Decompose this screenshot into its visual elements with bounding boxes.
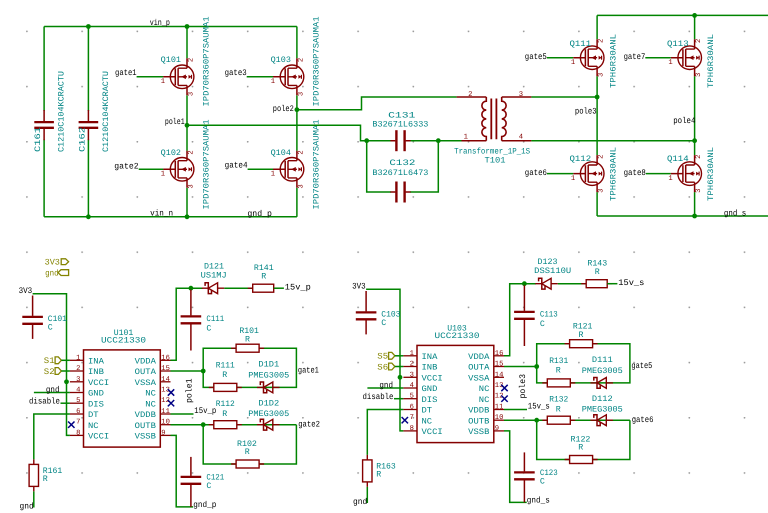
svg-text:3: 3 bbox=[598, 189, 606, 193]
svg-text:Q103: Q103 bbox=[271, 56, 291, 65]
wire D123 to R143 bbox=[558, 283, 586, 285]
svg-text:DT: DT bbox=[422, 407, 433, 416]
svg-text:OUTB: OUTB bbox=[468, 417, 489, 426]
svg-text:3: 3 bbox=[76, 376, 80, 384]
svg-text:7: 7 bbox=[410, 414, 414, 422]
svg-text:15: 15 bbox=[495, 361, 504, 369]
svg-text:pole1: pole1 bbox=[185, 379, 195, 404]
svg-text:C: C bbox=[206, 324, 211, 333]
svg-text:11: 11 bbox=[161, 408, 170, 416]
svg-text:3: 3 bbox=[297, 184, 305, 188]
svg-text:NC: NC bbox=[145, 400, 156, 409]
transistor Q103 bbox=[280, 65, 304, 89]
wire left vertical (C161 branch) bbox=[43, 27, 45, 217]
svg-text:pole3: pole3 bbox=[518, 374, 528, 399]
wire Q111 source to pole3 to Q112 drain bbox=[596, 76, 598, 155]
wire vin_p top rail bbox=[44, 26, 297, 28]
svg-text:GND: GND bbox=[422, 385, 438, 394]
svg-text:OUTA: OUTA bbox=[468, 364, 489, 373]
svg-text:IPD70R360P7SAUMA1: IPD70R360P7SAUMA1 bbox=[203, 119, 212, 209]
resistor R143 bbox=[586, 280, 607, 288]
svg-text:2: 2 bbox=[76, 365, 80, 373]
junction OUTB U103 bbox=[534, 418, 539, 423]
no-connect pin7 U103 bbox=[402, 417, 408, 423]
wire Q101 source to pole1 to Q102 drain bbox=[186, 95, 188, 151]
wire Q102 source to vin_n bbox=[186, 188, 188, 217]
wire R161 to gnd bbox=[33, 491, 35, 507]
svg-text:C: C bbox=[540, 478, 545, 487]
svg-text:D121: D121 bbox=[204, 262, 224, 271]
svg-text:1: 1 bbox=[271, 78, 275, 86]
svg-text:DSS110U: DSS110U bbox=[534, 267, 571, 276]
svg-text:DT: DT bbox=[88, 411, 99, 420]
svg-text:8: 8 bbox=[76, 429, 80, 437]
junction OUTA U103 bbox=[534, 364, 539, 369]
junction pole2 bbox=[295, 107, 300, 112]
wire R141 to 15v_p bbox=[274, 287, 284, 289]
svg-text:TPH6R30ANL: TPH6R30ANL bbox=[610, 34, 619, 88]
wire secondary top rail bbox=[597, 14, 768, 16]
svg-text:2: 2 bbox=[187, 58, 195, 62]
svg-text:D112: D112 bbox=[592, 395, 613, 404]
svg-text:Transformer_1P_1S: Transformer_1P_1S bbox=[454, 146, 530, 156]
svg-text:VCCI: VCCI bbox=[88, 433, 109, 442]
svg-text:R: R bbox=[556, 406, 561, 415]
wire gnd to GND pin (U101) bbox=[34, 392, 70, 394]
wire Q113 drain bbox=[694, 15, 696, 39]
svg-text:B32671L6473: B32671L6473 bbox=[372, 169, 428, 178]
wire gate5 to Q111 bbox=[547, 57, 573, 59]
svg-text:R: R bbox=[578, 444, 583, 453]
svg-text:Q102: Q102 bbox=[161, 149, 181, 158]
svg-text:C: C bbox=[540, 320, 545, 329]
resistor R102 bbox=[236, 460, 259, 468]
svg-text:2: 2 bbox=[695, 155, 703, 159]
svg-text:gate3: gate3 bbox=[225, 68, 247, 78]
wire VDDA to D121 node bbox=[171, 288, 203, 360]
svg-text:PMEG3005: PMEG3005 bbox=[582, 367, 623, 376]
svg-text:VSSA: VSSA bbox=[468, 374, 489, 383]
svg-text:R: R bbox=[222, 410, 227, 419]
svg-text:TPH6R30ANL: TPH6R30ANL bbox=[707, 147, 716, 201]
svg-text:VCCI: VCCI bbox=[88, 379, 109, 388]
svg-text:1: 1 bbox=[161, 78, 165, 86]
svg-text:C1210C104KCRACTU: C1210C104KCRACTU bbox=[58, 71, 67, 152]
svg-text:IPD70R360P7SAUMA1: IPD70R360P7SAUMA1 bbox=[203, 16, 212, 106]
wire R143 to 15v_s bbox=[607, 283, 617, 285]
svg-text:R132: R132 bbox=[549, 396, 568, 405]
svg-text:15v_s: 15v_s bbox=[618, 278, 644, 288]
svg-text:3: 3 bbox=[410, 371, 414, 379]
svg-text:3: 3 bbox=[187, 184, 195, 188]
wire gate2 to Q102 bbox=[139, 168, 164, 170]
wire gnd_s bottom rail bbox=[597, 215, 768, 217]
svg-text:15v_p: 15v_p bbox=[194, 406, 216, 416]
capacitor C101 bbox=[22, 316, 43, 318]
svg-text:pole4: pole4 bbox=[673, 116, 695, 126]
resistor R122 bbox=[570, 456, 593, 464]
svg-text:R: R bbox=[556, 366, 561, 375]
junction C131 right node bbox=[436, 138, 441, 143]
wire Q111 drain bbox=[596, 15, 598, 39]
svg-text:4: 4 bbox=[519, 134, 523, 142]
wire DT to R161 bbox=[34, 414, 70, 459]
junction vin_p/Q101 bbox=[185, 24, 190, 29]
svg-text:C103: C103 bbox=[381, 311, 400, 320]
wire OUTB row with R132 and D112 bbox=[504, 419, 630, 421]
wire gate7 to Q113 bbox=[645, 57, 670, 59]
wire VDDB to 15v_s label bbox=[504, 409, 527, 411]
svg-text:pole3: pole3 bbox=[575, 107, 597, 117]
svg-text:1: 1 bbox=[76, 354, 80, 362]
svg-text:6: 6 bbox=[76, 408, 80, 416]
capacitor C103 bbox=[356, 311, 377, 313]
wire Q113 source to pole4 to Q114 drain bbox=[694, 76, 696, 155]
wire S1 to INA bbox=[61, 359, 70, 361]
capacitor C161 bbox=[34, 121, 54, 123]
junction vin_n/C162 bbox=[86, 214, 91, 219]
junction OUTA U101 bbox=[201, 369, 206, 374]
resistor R131 bbox=[547, 379, 570, 387]
svg-text:9: 9 bbox=[161, 429, 165, 437]
svg-text:VCCI: VCCI bbox=[422, 428, 443, 437]
wire pole1 to C131/C132 node bbox=[187, 125, 367, 140]
no-connect pin13 U101 bbox=[168, 389, 174, 395]
svg-text:D1D1: D1D1 bbox=[258, 361, 279, 370]
svg-text:2: 2 bbox=[598, 155, 606, 159]
junction gnd_s/Q114 bbox=[692, 214, 697, 219]
wire transformer pin1 to node bbox=[438, 140, 461, 142]
capacitor C121 bbox=[181, 476, 202, 478]
hierarchical label S2 bbox=[55, 368, 61, 375]
svg-text:disable: disable bbox=[29, 396, 60, 406]
svg-text:gnd_s: gnd_s bbox=[724, 209, 746, 219]
wire OUTA to junction (U101) bbox=[171, 370, 204, 372]
svg-text:R: R bbox=[43, 475, 48, 484]
transistor Q104 bbox=[280, 158, 304, 182]
wire gnd to GND pin (U103) bbox=[367, 387, 403, 389]
diode D112 PMEG3005 bbox=[594, 415, 600, 426]
svg-text:VDDB: VDDB bbox=[135, 411, 156, 420]
wire gate4 to Q104 bbox=[248, 168, 274, 170]
hierarchical label S6 bbox=[389, 363, 395, 370]
svg-text:B32671L6333: B32671L6333 bbox=[372, 121, 428, 130]
svg-text:Q101: Q101 bbox=[161, 56, 181, 65]
svg-text:gate7: gate7 bbox=[624, 52, 646, 62]
svg-text:R131: R131 bbox=[549, 357, 568, 366]
svg-text:1: 1 bbox=[464, 134, 468, 142]
svg-text:2: 2 bbox=[297, 58, 305, 62]
svg-text:2: 2 bbox=[297, 150, 305, 154]
svg-text:10: 10 bbox=[495, 414, 504, 422]
wire 3V3 feed to U101 VCCI pins bbox=[33, 294, 70, 436]
svg-text:C131: C131 bbox=[388, 112, 415, 121]
resistor R132 bbox=[547, 416, 570, 424]
svg-text:pole2: pole2 bbox=[273, 104, 294, 114]
wire gate3 to Q103 bbox=[247, 76, 273, 78]
svg-text:C113: C113 bbox=[540, 311, 558, 320]
svg-text:Q113: Q113 bbox=[667, 40, 689, 49]
svg-text:VDDA: VDDA bbox=[468, 353, 489, 362]
svg-text:S2: S2 bbox=[44, 367, 55, 377]
svg-text:R112: R112 bbox=[216, 400, 235, 409]
svg-text:NC: NC bbox=[422, 417, 433, 426]
svg-text:5: 5 bbox=[410, 393, 414, 401]
transistor Q101 bbox=[170, 65, 194, 89]
transistor Q102 bbox=[170, 158, 194, 182]
svg-text:gate1: gate1 bbox=[298, 365, 319, 375]
svg-text:PMEG3005: PMEG3005 bbox=[582, 406, 623, 415]
svg-text:D123: D123 bbox=[538, 258, 558, 267]
svg-text:1: 1 bbox=[410, 350, 414, 358]
svg-text:gate6: gate6 bbox=[632, 415, 654, 425]
svg-text:OUTB: OUTB bbox=[135, 422, 156, 431]
svg-text:1: 1 bbox=[668, 59, 672, 67]
svg-text:7: 7 bbox=[76, 419, 80, 427]
svg-text:5: 5 bbox=[76, 397, 80, 405]
no-connect pin12 U101 bbox=[168, 400, 174, 406]
svg-text:3: 3 bbox=[598, 73, 606, 77]
wire OUTA to junction (U103) bbox=[504, 366, 537, 368]
capacitor C113 bbox=[514, 311, 535, 313]
wire D121 to R141 bbox=[224, 287, 252, 289]
svg-text:3: 3 bbox=[187, 92, 195, 96]
svg-text:R: R bbox=[222, 371, 227, 380]
svg-text:2: 2 bbox=[187, 150, 195, 154]
svg-text:gate1: gate1 bbox=[115, 68, 137, 78]
svg-text:C101: C101 bbox=[48, 315, 67, 324]
wire gate6 to Q112 bbox=[547, 173, 573, 175]
wire R101 loop bbox=[203, 348, 296, 387]
svg-text:Q111: Q111 bbox=[570, 40, 592, 49]
capacitor C111 bbox=[181, 315, 202, 317]
wire gate8 to Q114 bbox=[646, 173, 671, 175]
junction VCCI pin3 U101 bbox=[64, 379, 69, 384]
svg-text:vin_n: vin_n bbox=[150, 209, 173, 219]
svg-text:IPD70R360P7SAUMA1: IPD70R360P7SAUMA1 bbox=[312, 119, 321, 209]
svg-text:S5: S5 bbox=[377, 352, 388, 362]
hierarchical label S1 bbox=[55, 357, 61, 364]
junction vin_n/Q102 bbox=[185, 214, 190, 219]
svg-text:R: R bbox=[245, 335, 250, 344]
wire gate1 to Q101 bbox=[137, 76, 164, 78]
svg-text:T101: T101 bbox=[485, 156, 506, 165]
wire R102 loop bbox=[203, 425, 296, 464]
wire R122 loop bbox=[537, 420, 630, 459]
svg-text:NC: NC bbox=[145, 390, 156, 399]
svg-text:1: 1 bbox=[571, 59, 575, 67]
svg-text:D111: D111 bbox=[592, 356, 613, 365]
wire Q112 source to gnd_s bbox=[596, 192, 598, 216]
wire disable to DIS (U101) bbox=[61, 402, 70, 404]
wire vin_n / gnd_p bottom rail bbox=[44, 216, 297, 218]
svg-text:R: R bbox=[261, 272, 266, 281]
hierarchical label S5 bbox=[389, 352, 395, 359]
svg-text:2: 2 bbox=[468, 91, 472, 99]
svg-text:GND: GND bbox=[88, 390, 104, 399]
svg-text:C1210C104KCRACTU: C1210C104KCRACTU bbox=[102, 71, 111, 152]
wire R163 to gnd bbox=[366, 487, 368, 503]
IC U101 UCC21330 gate driver bbox=[84, 350, 161, 447]
junction vin_p/C162 bbox=[86, 24, 91, 29]
capacitor C132 bbox=[395, 182, 397, 203]
junction pole1 bbox=[185, 123, 190, 128]
wire S6 to INB bbox=[395, 366, 404, 368]
svg-text:15v_s: 15v_s bbox=[528, 402, 550, 412]
svg-text:IPD70R360P7SAUMA1: IPD70R360P7SAUMA1 bbox=[312, 16, 321, 106]
resistor R141 bbox=[253, 284, 274, 292]
svg-text:US1MJ: US1MJ bbox=[201, 272, 227, 281]
junction C113 top bbox=[522, 281, 527, 286]
svg-text:gnd: gnd bbox=[20, 501, 34, 511]
svg-text:TPH6R30ANL: TPH6R30ANL bbox=[610, 147, 619, 201]
svg-text:4: 4 bbox=[410, 382, 414, 390]
junction pole4 bbox=[692, 138, 697, 143]
junction pole3 bbox=[595, 95, 600, 100]
IC U103 UCC21330 gate driver bbox=[417, 345, 494, 442]
wire 3V3 feed to U103 VCCI pins bbox=[366, 289, 403, 431]
svg-text:VSSB: VSSB bbox=[468, 428, 489, 437]
svg-text:S1: S1 bbox=[44, 356, 55, 366]
wire VSSB to gnd_p bbox=[171, 435, 194, 507]
svg-text:PMEG3005: PMEG3005 bbox=[248, 410, 289, 419]
svg-text:14: 14 bbox=[161, 376, 170, 384]
wire OUTB row with R112 and D1D2 bbox=[171, 424, 297, 426]
no-connect pin12 U103 bbox=[501, 396, 507, 402]
svg-text:2: 2 bbox=[410, 361, 414, 369]
svg-text:disable: disable bbox=[363, 392, 394, 402]
svg-text:2: 2 bbox=[598, 39, 606, 43]
svg-text:gate5: gate5 bbox=[525, 52, 547, 62]
svg-text:R: R bbox=[245, 448, 250, 457]
svg-text:D1D2: D1D2 bbox=[258, 400, 279, 409]
svg-text:C162: C162 bbox=[79, 127, 88, 152]
svg-text:14: 14 bbox=[495, 371, 504, 379]
svg-text:vin_p: vin_p bbox=[150, 18, 170, 28]
svg-text:1: 1 bbox=[161, 171, 165, 179]
junction OUTB U101 bbox=[201, 422, 206, 427]
svg-text:INA: INA bbox=[422, 353, 438, 362]
svg-text:3: 3 bbox=[695, 73, 703, 77]
wire R121 loop bbox=[537, 344, 630, 383]
svg-text:VDDB: VDDB bbox=[468, 407, 489, 416]
capacitor C162 bbox=[79, 121, 99, 123]
svg-text:VCCI: VCCI bbox=[422, 374, 443, 383]
junction C111 top bbox=[189, 286, 194, 291]
svg-text:3: 3 bbox=[695, 189, 703, 193]
wire Q101 drain from vin_p bbox=[186, 27, 188, 59]
resistor R121 bbox=[570, 340, 593, 348]
svg-text:UCC21330: UCC21330 bbox=[101, 336, 146, 345]
svg-text:NC: NC bbox=[88, 422, 99, 431]
svg-text:gate6: gate6 bbox=[525, 168, 547, 178]
svg-text:INA: INA bbox=[88, 357, 104, 366]
svg-text:DIS: DIS bbox=[422, 396, 438, 405]
wire VSSB to gnd_s bbox=[504, 431, 527, 503]
svg-text:16: 16 bbox=[495, 350, 504, 358]
svg-text:VSSB: VSSB bbox=[135, 433, 156, 442]
wire S2 to INB bbox=[61, 370, 70, 372]
svg-text:C161: C161 bbox=[34, 127, 43, 152]
junction C131 left node bbox=[364, 138, 369, 143]
transistor Q113 bbox=[678, 46, 702, 70]
svg-text:gate8: gate8 bbox=[624, 168, 646, 178]
resistor R101 bbox=[236, 344, 259, 352]
wire C132 rung bbox=[367, 141, 439, 192]
svg-text:1: 1 bbox=[271, 171, 275, 179]
resistor R111 bbox=[214, 383, 237, 391]
wire C162 branch vertical bbox=[87, 27, 89, 217]
svg-text:gnd_s: gnd_s bbox=[527, 496, 550, 506]
svg-text:gnd: gnd bbox=[45, 269, 59, 279]
svg-text:gnd: gnd bbox=[379, 381, 393, 391]
wire Q103 source to pole2 to Q104 drain bbox=[296, 95, 298, 151]
svg-text:9: 9 bbox=[495, 425, 499, 433]
svg-text:S6: S6 bbox=[377, 362, 388, 372]
wire VDDA to D123 node bbox=[504, 284, 536, 356]
svg-text:gnd: gnd bbox=[46, 385, 60, 395]
svg-text:R: R bbox=[376, 471, 381, 480]
resistor R112 bbox=[214, 421, 237, 429]
no-connect pin7 U101 bbox=[68, 422, 74, 428]
wire C131 row bbox=[367, 140, 439, 142]
transistor Q112 bbox=[580, 162, 604, 186]
svg-text:INB: INB bbox=[422, 364, 438, 373]
svg-text:11: 11 bbox=[495, 404, 504, 412]
svg-text:INB: INB bbox=[88, 368, 104, 377]
no-connect pin13 U103 bbox=[501, 385, 507, 391]
svg-text:gnd_p: gnd_p bbox=[193, 500, 216, 510]
transformer T101 bbox=[457, 96, 487, 98]
svg-text:C: C bbox=[381, 319, 386, 328]
wire transformer pin4 to pole4 bbox=[531, 140, 694, 142]
transistor Q111 bbox=[580, 46, 604, 70]
transistor Q114 bbox=[678, 162, 702, 186]
svg-text:Q112: Q112 bbox=[570, 155, 592, 164]
svg-text:3V3: 3V3 bbox=[45, 258, 60, 268]
svg-text:TPH6R30ANL: TPH6R30ANL bbox=[707, 34, 716, 88]
svg-text:gate2: gate2 bbox=[114, 162, 138, 172]
svg-text:1: 1 bbox=[571, 175, 575, 183]
wire Q103 drain from vin_p bbox=[296, 27, 298, 59]
junction top rail/Q113 bbox=[692, 13, 697, 18]
svg-text:VSSA: VSSA bbox=[135, 379, 156, 388]
svg-text:R111: R111 bbox=[216, 362, 235, 371]
diode D1D2 PMEG3005 bbox=[260, 419, 266, 430]
svg-text:VDDA: VDDA bbox=[135, 357, 156, 366]
diode D121 US1MJ bbox=[205, 283, 211, 294]
diode D1D1 PMEG3005 bbox=[260, 382, 266, 393]
capacitor C123 bbox=[514, 471, 535, 473]
svg-text:gate2: gate2 bbox=[298, 419, 320, 429]
resistor R163 bbox=[363, 460, 372, 482]
resistor R161 bbox=[29, 464, 38, 486]
svg-text:NC: NC bbox=[479, 385, 490, 394]
diode D123 DSS110U bbox=[539, 278, 545, 289]
svg-text:3: 3 bbox=[297, 92, 305, 96]
wire Q114 source to gnd_s bbox=[694, 192, 696, 216]
svg-text:C111: C111 bbox=[206, 315, 224, 324]
svg-text:6: 6 bbox=[410, 404, 414, 412]
wire transformer pin3 to pole3 bbox=[531, 96, 597, 98]
svg-text:8: 8 bbox=[410, 425, 414, 433]
diode D111 PMEG3005 bbox=[594, 378, 600, 389]
svg-text:C132: C132 bbox=[389, 159, 415, 168]
svg-text:15: 15 bbox=[161, 365, 170, 373]
svg-text:15v_p: 15v_p bbox=[285, 282, 311, 292]
svg-text:Q104: Q104 bbox=[271, 149, 291, 158]
wire disable to DIS (U103) bbox=[394, 398, 403, 400]
